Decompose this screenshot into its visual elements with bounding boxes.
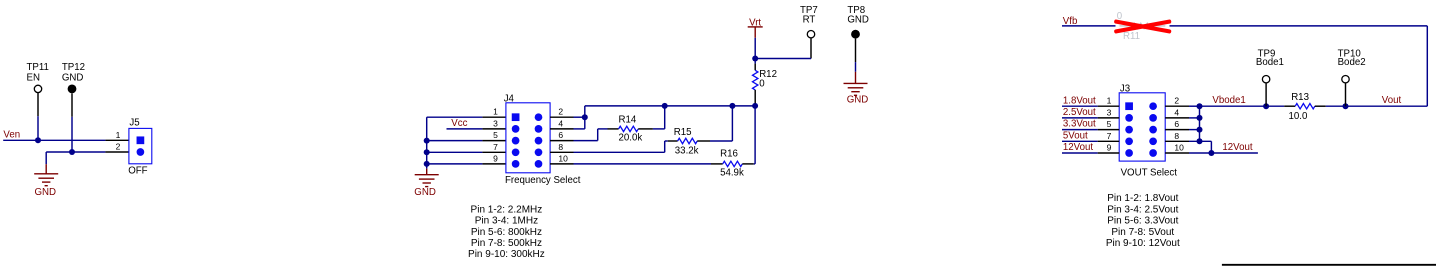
svg-text:Pin 5-6: 3.3Vout: Pin 5-6: 3.3Vout — [1107, 216, 1178, 227]
svg-text:9: 9 — [1107, 143, 1112, 153]
svg-text:VOUT Select: VOUT Select — [1121, 168, 1178, 179]
wire Ven net — [3, 139, 105, 141]
lead R16 right — [742, 163, 754, 165]
svg-text:R13: R13 — [1291, 92, 1309, 103]
svg-text:9: 9 — [493, 153, 498, 163]
svg-text:GND: GND — [847, 95, 869, 106]
J4 pin 8 (round) — [535, 148, 543, 156]
pin 9 stub of J4 — [482, 163, 506, 165]
svg-text:3: 3 — [1107, 107, 1112, 117]
J3 pin 3 (round) — [1125, 114, 1133, 122]
svg-text:GND: GND — [414, 187, 436, 198]
wire Vrt down — [754, 38, 756, 59]
lead R15 right — [697, 140, 710, 142]
ground symbol left — [34, 164, 58, 186]
junction rail/pin7 — [424, 149, 430, 155]
test point TP10 — [1342, 76, 1349, 83]
power port Vrt bar — [748, 27, 763, 38]
pin 8 stub of J4 — [550, 151, 573, 153]
svg-text:12Vout: 12Vout — [1222, 142, 1252, 153]
junction rail/pin5 — [424, 138, 430, 144]
wire R14 left — [598, 128, 608, 130]
pin of TP9 — [1265, 83, 1267, 106]
svg-text:6: 6 — [558, 130, 563, 140]
test point TP7 — [807, 31, 814, 38]
svg-text:8: 8 — [1174, 131, 1179, 141]
wire down to ground — [45, 152, 47, 164]
svg-text:12Vout: 12Vout — [1063, 142, 1093, 153]
svg-text:GND: GND — [62, 72, 84, 83]
wire vertical tying pins 2-8 — [1199, 106, 1201, 141]
svg-text:1.8Vout: 1.8Vout — [1063, 95, 1096, 106]
wire pin2 right — [1189, 105, 1200, 107]
svg-text:Pin 3-4: 2.5Vout: Pin 3-4: 2.5Vout — [1107, 204, 1178, 215]
lead R14 right — [638, 128, 653, 130]
ground symbol under J4 rail — [415, 169, 439, 187]
wire up to R14 left — [597, 129, 599, 141]
wire right vertical — [1426, 26, 1428, 106]
svg-text:10: 10 — [1174, 143, 1184, 153]
wire pin2 to junction — [574, 116, 585, 118]
junction pin10 — [1208, 150, 1214, 156]
svg-text:Frequency Select: Frequency Select — [505, 175, 581, 186]
svg-text:R15: R15 — [674, 127, 692, 138]
svg-text:EN: EN — [27, 72, 40, 83]
resistor R11 body (disabled, gray) — [1120, 23, 1166, 28]
svg-text:RT: RT — [803, 15, 816, 26]
svg-text:Pin 7-8: 500kHz: Pin 7-8: 500kHz — [471, 238, 542, 249]
svg-text:1: 1 — [493, 107, 498, 117]
svg-text:Pin 7-8: 5Vout: Pin 7-8: 5Vout — [1111, 227, 1174, 238]
J4 pin 10 (round) — [535, 160, 543, 168]
pin 3 stub of J4 — [482, 128, 506, 130]
wire pin8 right — [574, 151, 665, 153]
junction Ven/TP11 — [35, 137, 41, 143]
test point TP8 — [851, 30, 860, 39]
svg-text:Vcc: Vcc — [451, 118, 467, 129]
wire TP8 to ground — [855, 62, 857, 72]
J4 pin 7 (round) — [512, 148, 520, 156]
wire R15 right up to node — [731, 106, 733, 141]
pin of TP8 — [855, 39, 857, 63]
junction rail/pin9 — [424, 161, 430, 167]
svg-text:Pin 9-10: 300kHz: Pin 9-10: 300kHz — [468, 249, 545, 260]
test point TP9 — [1262, 76, 1269, 83]
pin 2 stub of J4 — [550, 116, 573, 118]
svg-text:2.5Vout: 2.5Vout — [1063, 107, 1096, 118]
wire 3.3Vout net — [1062, 129, 1098, 131]
wire Vbode1 row — [1200, 105, 1285, 107]
svg-text:5: 5 — [493, 130, 498, 140]
pin 7 stub of J4 — [482, 151, 506, 153]
svg-text:3.3Vout: 3.3Vout — [1063, 119, 1096, 130]
svg-text:10.0: 10.0 — [1289, 111, 1308, 122]
svg-text:7: 7 — [493, 142, 498, 152]
svg-text:3: 3 — [493, 118, 498, 128]
svg-text:Pin 9-10: 12Vout: Pin 9-10: 12Vout — [1106, 238, 1180, 249]
svg-text:Bode1: Bode1 — [1256, 57, 1284, 68]
connector J4 body — [506, 103, 550, 173]
wire R16 right corner — [754, 163, 755, 165]
svg-text:5Vout: 5Vout — [1063, 130, 1088, 141]
svg-text:2: 2 — [558, 107, 563, 117]
svg-text:1: 1 — [1107, 96, 1112, 106]
svg-text:Bode2: Bode2 — [1338, 57, 1366, 68]
pin 2 stub of J5 — [105, 151, 128, 153]
lead R12 top — [754, 64, 756, 71]
wire 1.8Vout net — [1062, 105, 1098, 107]
pin of TP10 — [1345, 83, 1347, 106]
wire to J4 pin 1 — [427, 116, 483, 118]
junction top/R15 — [729, 103, 735, 109]
junction Vrt/TP7/R12 — [752, 56, 758, 62]
J3 pin 9 (round) — [1125, 149, 1133, 157]
svg-text:2: 2 — [1174, 96, 1179, 106]
pin 4 stub of J4 — [550, 128, 573, 130]
junction pin2/pin4 vertical — [582, 114, 588, 120]
svg-text:33.2k: 33.2k — [675, 145, 699, 156]
junction top/R14 — [662, 103, 668, 109]
red X no-populate mark over R11 — [1116, 22, 1169, 32]
svg-text:1: 1 — [116, 130, 121, 140]
wire vertical pins2-4 — [584, 106, 586, 129]
svg-text:R14: R14 — [619, 115, 637, 126]
wire Vfb left segment — [1062, 25, 1116, 27]
pin 1 stub of J5 — [105, 139, 128, 141]
svg-text:2: 2 — [116, 142, 121, 152]
svg-text:5: 5 — [1107, 119, 1112, 129]
svg-text:4: 4 — [1174, 107, 1179, 117]
wire R12 bottom to node — [754, 103, 756, 106]
svg-text:R16: R16 — [720, 148, 738, 159]
svg-text:Pin 1-2: 1.8Vout: Pin 1-2: 1.8Vout — [1107, 193, 1178, 204]
wire pin4 right — [1189, 117, 1200, 119]
junction pin8 — [1197, 138, 1203, 144]
wire pin6 right — [1189, 129, 1200, 131]
wire to J4 pin 9 — [427, 163, 483, 165]
svg-text:Vbode1: Vbode1 — [1212, 95, 1245, 106]
wire GND net row — [46, 151, 105, 153]
svg-text:GND: GND — [847, 15, 869, 26]
J3 pin 6 (round) — [1149, 126, 1157, 134]
svg-text:Pin 3-4: 1MHz: Pin 3-4: 1MHz — [475, 216, 538, 227]
pin 10 stub of J4 — [550, 163, 573, 165]
wire R15 left — [665, 140, 668, 142]
wire to J4 pin 5 — [427, 140, 483, 142]
connector J5 body — [129, 128, 152, 163]
wire 2.5Vout net — [1062, 117, 1098, 119]
resistor R13 body — [1295, 104, 1315, 109]
svg-text:20.0k: 20.0k — [619, 133, 643, 144]
svg-text:OFF: OFF — [128, 166, 147, 177]
pin 8 stub of J3 — [1165, 140, 1189, 142]
wire to R12 top — [754, 59, 756, 64]
svg-text:Pin 1-2: 2.2MHz: Pin 1-2: 2.2MHz — [471, 204, 543, 215]
junction TP9/Vbode1 — [1263, 103, 1269, 109]
J3 pin 5 (round) — [1125, 126, 1133, 134]
junction TP10/Vout — [1343, 103, 1349, 109]
lead R13 left — [1284, 105, 1295, 107]
wire pin8 right — [1189, 140, 1211, 142]
resistor R12 body — [753, 70, 758, 90]
J3 pin 10 (round) — [1149, 149, 1157, 157]
J3 pin 2 (round) — [1149, 102, 1157, 110]
test point TP11 — [34, 85, 41, 92]
test point TP12 — [68, 85, 77, 94]
J4 pin 1 (square) — [512, 113, 520, 121]
pin stub of J3 (12Vout) — [1098, 152, 1120, 154]
wire 5Vout net — [1062, 140, 1098, 142]
J4 pin 4 (round) — [535, 125, 543, 133]
junction TP12/GND row — [69, 149, 75, 155]
pin stub of J3 (2.5Vout) — [1098, 117, 1120, 119]
lead R15 left — [668, 140, 678, 142]
svg-text:R11: R11 — [1123, 31, 1140, 42]
wire pin10 right — [574, 163, 712, 165]
J5 pin 1 (square) — [137, 136, 145, 144]
J3 pin 8 (round) — [1149, 137, 1157, 145]
resistor R16 body — [723, 161, 743, 166]
svg-text:Vfb: Vfb — [1063, 16, 1078, 27]
svg-text:Pin 5-6: 800kHz: Pin 5-6: 800kHz — [471, 227, 542, 238]
wire node down to R16 — [754, 106, 756, 164]
svg-text:Vout: Vout — [1382, 95, 1402, 106]
pin of TP7 — [810, 38, 812, 59]
pin 4 stub of J3 — [1165, 117, 1189, 119]
J4 pin 9 (round) — [512, 160, 520, 168]
junction pin2 — [1197, 103, 1203, 109]
resistor R14 body — [619, 126, 639, 131]
svg-text:0: 0 — [759, 78, 765, 89]
wire pin6 right — [574, 140, 598, 142]
svg-text:4: 4 — [558, 118, 563, 128]
junction pin6 — [1197, 127, 1203, 133]
junction pin4 — [1197, 115, 1203, 121]
pin of TP11 — [37, 93, 39, 117]
connector J3 body — [1119, 93, 1165, 161]
wire up to R15 left — [664, 141, 666, 152]
wire R14 right up to node — [664, 106, 666, 129]
wire TP7 to Vrt node — [755, 58, 811, 60]
wire node top horizontal — [585, 105, 755, 107]
wire TP12 down to GND net — [71, 117, 73, 152]
J4 pin 2 (round) — [535, 113, 543, 121]
pin of TP12 — [71, 93, 73, 117]
sheet border line bottom right — [1222, 264, 1436, 266]
svg-text:54.9k: 54.9k — [720, 168, 744, 179]
junction top/R12/R16 — [752, 103, 758, 109]
svg-text:8: 8 — [558, 142, 563, 152]
pin 2 stub of J3 — [1165, 105, 1189, 107]
pin 10 stub of J3 — [1165, 152, 1189, 154]
wire pin4 to junction — [574, 128, 585, 130]
pin 6 stub of J3 — [1165, 129, 1189, 131]
svg-text:Ven: Ven — [3, 129, 20, 140]
pin stub of J3 (3.3Vout) — [1098, 129, 1120, 131]
J3 pin 1 (square) — [1125, 102, 1133, 110]
J4 pin 6 (round) — [535, 137, 543, 145]
wire to J4 pin 7 — [427, 151, 483, 153]
pin 1 stub of J4 — [482, 116, 506, 118]
wire Vfb right segment — [1170, 25, 1428, 27]
svg-text:6: 6 — [1174, 119, 1179, 129]
lead R14 left — [608, 128, 619, 130]
wire ground rail left of J4 — [426, 117, 428, 169]
wire pin10 right to 12Vout — [1189, 152, 1258, 154]
lead R16 left — [711, 163, 723, 165]
wire Vcc to J4 pin 3 — [447, 128, 483, 130]
ground symbol under TP8 — [844, 72, 868, 96]
wire TP11 to Ven net — [37, 116, 39, 140]
pin 6 stub of J4 — [550, 140, 573, 142]
J3 pin 4 (round) — [1149, 114, 1157, 122]
wire R14 right — [653, 128, 665, 130]
svg-text:GND: GND — [35, 187, 57, 198]
wire R15 right — [710, 140, 732, 142]
lead R12 bottom — [754, 90, 756, 103]
J4 pin 3 (round) — [512, 125, 520, 133]
svg-text:7: 7 — [1107, 131, 1112, 141]
J3 pin 7 (round) — [1125, 137, 1133, 145]
J5 pin 2 (round) — [137, 148, 145, 156]
wire jog down to pin10 row — [1210, 141, 1212, 153]
J4 pin 5 (round) — [512, 137, 520, 145]
svg-text:J5: J5 — [129, 117, 139, 128]
pin 5 stub of J4 — [482, 140, 506, 142]
pin stub of J3 (5Vout) — [1098, 140, 1120, 142]
svg-text:10: 10 — [558, 153, 568, 163]
pin stub of J3 (1.8Vout) — [1098, 105, 1120, 107]
resistor R15 body — [678, 138, 698, 143]
lead R13 right — [1315, 105, 1326, 107]
wire Vout row right — [1326, 105, 1428, 107]
wire 12Vout net — [1062, 152, 1098, 154]
